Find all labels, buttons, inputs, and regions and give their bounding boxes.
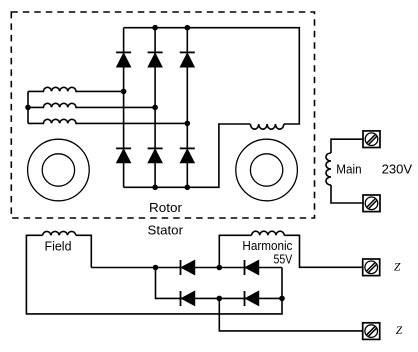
svg-text:Stator: Stator — [148, 222, 184, 237]
svg-text:Z: Z — [394, 262, 401, 274]
svg-text:Rotor: Rotor — [149, 200, 183, 215]
svg-text:55V: 55V — [274, 252, 293, 267]
svg-text:Z: Z — [396, 325, 403, 337]
svg-text:Main: Main — [336, 162, 361, 177]
svg-text:230V: 230V — [382, 162, 413, 177]
svg-text:Field: Field — [45, 239, 72, 254]
